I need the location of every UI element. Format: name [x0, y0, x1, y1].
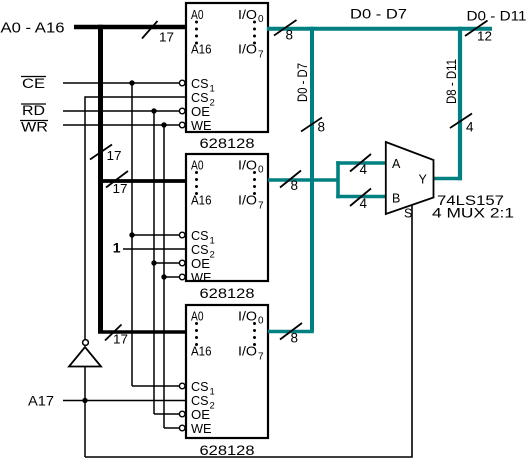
svg-text:1: 1	[210, 236, 215, 247]
U2 OE bubble	[179, 260, 185, 266]
wire RD to U2 OE	[154, 262, 179, 264]
wire A0-A16 bus vertical trunk	[98, 25, 103, 332]
pin label U1 I/O7	[238, 43, 264, 61]
bus width slash 8 at U1 I/O	[274, 20, 297, 36]
svg-text:I/O: I/O	[238, 310, 257, 324]
memory chip U3 628128 body	[186, 305, 268, 438]
bus width slash 17 on trunk	[90, 145, 112, 160]
U3 OE bubble	[179, 411, 185, 417]
wire CE to U3 CS1	[132, 385, 179, 387]
wire WR to U3 WE	[164, 427, 179, 429]
svg-text:OE: OE	[191, 408, 210, 422]
wire U3 I/O to D0-D7 vertical	[268, 330, 314, 334]
junction RD-U1	[151, 108, 156, 113]
U2 I/O ellipsis dots	[253, 171, 256, 195]
svg-text:D0 - D11: D0 - D11	[467, 8, 527, 24]
svg-text:A16: A16	[191, 43, 212, 57]
svg-text:2: 2	[210, 250, 215, 261]
svg-text:1: 1	[210, 84, 215, 95]
junction WR-U2	[161, 274, 166, 279]
svg-text:8: 8	[318, 120, 326, 135]
wire WR to U2 WE	[164, 276, 179, 278]
wire MUX splitter vertical	[336, 161, 340, 198]
bus width slash 4 at MUX A	[350, 154, 371, 172]
svg-text:A: A	[392, 157, 401, 171]
junction WR-U1	[161, 122, 166, 127]
bus width slash 12	[465, 21, 488, 37]
junction RD-U2	[151, 260, 156, 265]
svg-text:8: 8	[291, 331, 299, 346]
memory chip U2 628128 body	[186, 154, 268, 281]
svg-text:A0 - A16: A0 - A16	[1, 21, 65, 37]
svg-text:I/O: I/O	[238, 43, 257, 57]
node CE label with overbar	[21, 76, 46, 91]
svg-text:0: 0	[258, 165, 264, 176]
wire inverter output to U1 CS2	[85, 97, 186, 340]
svg-text:628128: 628128	[200, 442, 255, 458]
svg-text:RD: RD	[22, 103, 45, 118]
bus width slash 17 at U1	[142, 21, 158, 39]
pin label U1 CS1	[191, 77, 215, 95]
svg-text:CS: CS	[191, 394, 209, 408]
bus width slash 8 on D0-D7 vertical	[301, 118, 322, 132]
wire MUX output Y to D8-D11 vertical	[434, 177, 462, 181]
svg-text:0: 0	[258, 14, 264, 25]
U1 OE bubble	[179, 108, 185, 114]
svg-text:D8 - D11: D8 - D11	[444, 59, 459, 104]
svg-text:17: 17	[113, 332, 128, 347]
svg-text:7: 7	[258, 50, 264, 61]
svg-text:17: 17	[107, 148, 122, 163]
svg-text:B: B	[392, 192, 400, 206]
bus width slash 17 at U3	[105, 325, 122, 341]
svg-text:S: S	[404, 207, 412, 221]
pin label U3 I/O0	[238, 310, 264, 327]
svg-text:12: 12	[477, 29, 492, 44]
svg-text:D0 - D7: D0 - D7	[295, 63, 310, 102]
U1 CS1 bubble	[179, 80, 185, 86]
svg-text:0: 0	[258, 316, 264, 327]
U2 WE bubble	[179, 274, 185, 280]
bus width slash 8 at U2 I/O	[280, 171, 301, 188]
svg-text:OE: OE	[191, 105, 210, 119]
wire RD to U3 OE	[154, 413, 179, 415]
wire A17 to MUX select S (bottom run)	[85, 205, 412, 457]
junction CE-U1	[129, 80, 134, 85]
U1 address ellipsis dots	[195, 21, 198, 45]
svg-text:8: 8	[291, 178, 299, 193]
svg-text:D0 - D7: D0 - D7	[350, 6, 407, 22]
svg-text:A16: A16	[191, 194, 212, 208]
bus width slash 4 at MUX B	[350, 189, 371, 207]
wire CE chain vertical	[131, 83, 133, 386]
U2 address ellipsis dots	[195, 171, 198, 195]
bus width slash 8 at U3 I/O	[280, 323, 302, 340]
wire to MUX input A	[336, 161, 386, 165]
pin label U2 CS1	[191, 229, 215, 247]
pin label U2 I/O7	[238, 194, 264, 212]
bus width slash 17 at U2	[106, 171, 128, 188]
svg-text:4 MUX 2:1: 4 MUX 2:1	[432, 205, 514, 221]
svg-text:Y: Y	[419, 173, 428, 187]
svg-text:A0: A0	[191, 310, 204, 324]
U1 I/O ellipsis dots	[253, 21, 256, 45]
svg-text:I/O: I/O	[238, 345, 257, 359]
svg-text:A17: A17	[28, 393, 54, 409]
svg-text:17: 17	[159, 30, 174, 45]
U3 CS1 bubble	[179, 383, 185, 389]
svg-text:7: 7	[258, 352, 264, 363]
pin label U2 I/O0	[238, 159, 264, 176]
svg-text:WR: WR	[21, 120, 48, 135]
U1 WE bubble	[179, 122, 185, 128]
svg-text:A0: A0	[191, 159, 204, 173]
wire WR to U1 WE	[63, 124, 179, 126]
wire WR chain vertical	[163, 125, 165, 428]
svg-text:CS: CS	[191, 243, 209, 257]
wire data bus D0-D11 top horizontal	[267, 27, 492, 31]
pin label U3 CS2	[191, 394, 215, 412]
U2 CS1 bubble	[179, 232, 185, 238]
node RD label with overbar	[21, 103, 46, 118]
wire A17 to U3 CS2	[63, 400, 186, 402]
junction A17	[82, 398, 87, 403]
wire A0-A16 bus branch to U2	[98, 179, 186, 183]
U3 I/O ellipsis dots	[253, 322, 256, 346]
svg-text:CE: CE	[22, 76, 45, 91]
wire RD chain vertical	[153, 111, 155, 414]
wire A17 to inverter input	[84, 367, 86, 458]
wire A0-A16 bus branch to U3	[98, 330, 186, 334]
wire logic-1 to U2 CS2	[123, 248, 186, 250]
svg-text:I/O: I/O	[238, 8, 257, 22]
wire D0-D7 vertical from bus to U3 I/O	[310, 27, 314, 332]
svg-text:17: 17	[113, 181, 128, 196]
svg-text:7: 7	[258, 201, 264, 212]
wire A0-A16 bus horizontal into U1	[74, 25, 186, 30]
junction CE-U2	[129, 232, 134, 237]
inverter U4 output bubble	[83, 340, 89, 346]
node WR label with overbar	[20, 120, 48, 135]
svg-text:1: 1	[210, 387, 215, 398]
svg-text:WE: WE	[191, 422, 212, 436]
svg-text:WE: WE	[191, 119, 212, 133]
pin label U2 CS2	[191, 243, 215, 261]
mux U5 74LS157 body	[386, 142, 434, 214]
svg-text:I/O: I/O	[238, 194, 257, 208]
pin label U1 I/O0	[238, 8, 264, 25]
wire U2 I/O to MUX splitter	[268, 178, 338, 182]
wire D8-D11 vertical to top bus	[458, 27, 462, 181]
svg-text:4: 4	[466, 120, 474, 135]
inverter U4 triangle	[69, 347, 101, 367]
svg-text:CS: CS	[191, 91, 209, 105]
U3 WE bubble	[179, 425, 185, 431]
svg-text:CS: CS	[191, 77, 209, 91]
svg-text:2: 2	[210, 98, 215, 109]
svg-text:1: 1	[113, 239, 121, 255]
svg-text:I/O: I/O	[238, 159, 257, 173]
wire CE to U1 CS1	[63, 82, 179, 84]
bus width slash 4 on D8-D11 vertical	[450, 114, 472, 129]
pin label U3 I/O7	[238, 345, 264, 363]
svg-text:A16: A16	[191, 345, 212, 359]
svg-text:4: 4	[360, 162, 368, 177]
U3 address ellipsis dots	[195, 322, 198, 346]
svg-text:8: 8	[286, 28, 294, 43]
svg-text:CS: CS	[191, 380, 209, 394]
memory chip U1 628128 body	[186, 3, 268, 132]
svg-text:4: 4	[360, 196, 368, 211]
svg-text:A0: A0	[191, 8, 204, 22]
wire to MUX input B	[336, 195, 386, 199]
svg-text:WE: WE	[191, 271, 212, 285]
svg-text:OE: OE	[191, 257, 210, 271]
svg-text:628128: 628128	[200, 285, 255, 301]
wire RD to U1 OE	[63, 110, 179, 112]
svg-text:628128: 628128	[200, 135, 255, 151]
pin label U3 CS1	[191, 380, 215, 398]
svg-text:CS: CS	[191, 229, 209, 243]
pin label U1 CS2	[191, 91, 215, 109]
svg-text:2: 2	[210, 401, 215, 412]
wire CE to U2 CS1	[132, 234, 179, 236]
